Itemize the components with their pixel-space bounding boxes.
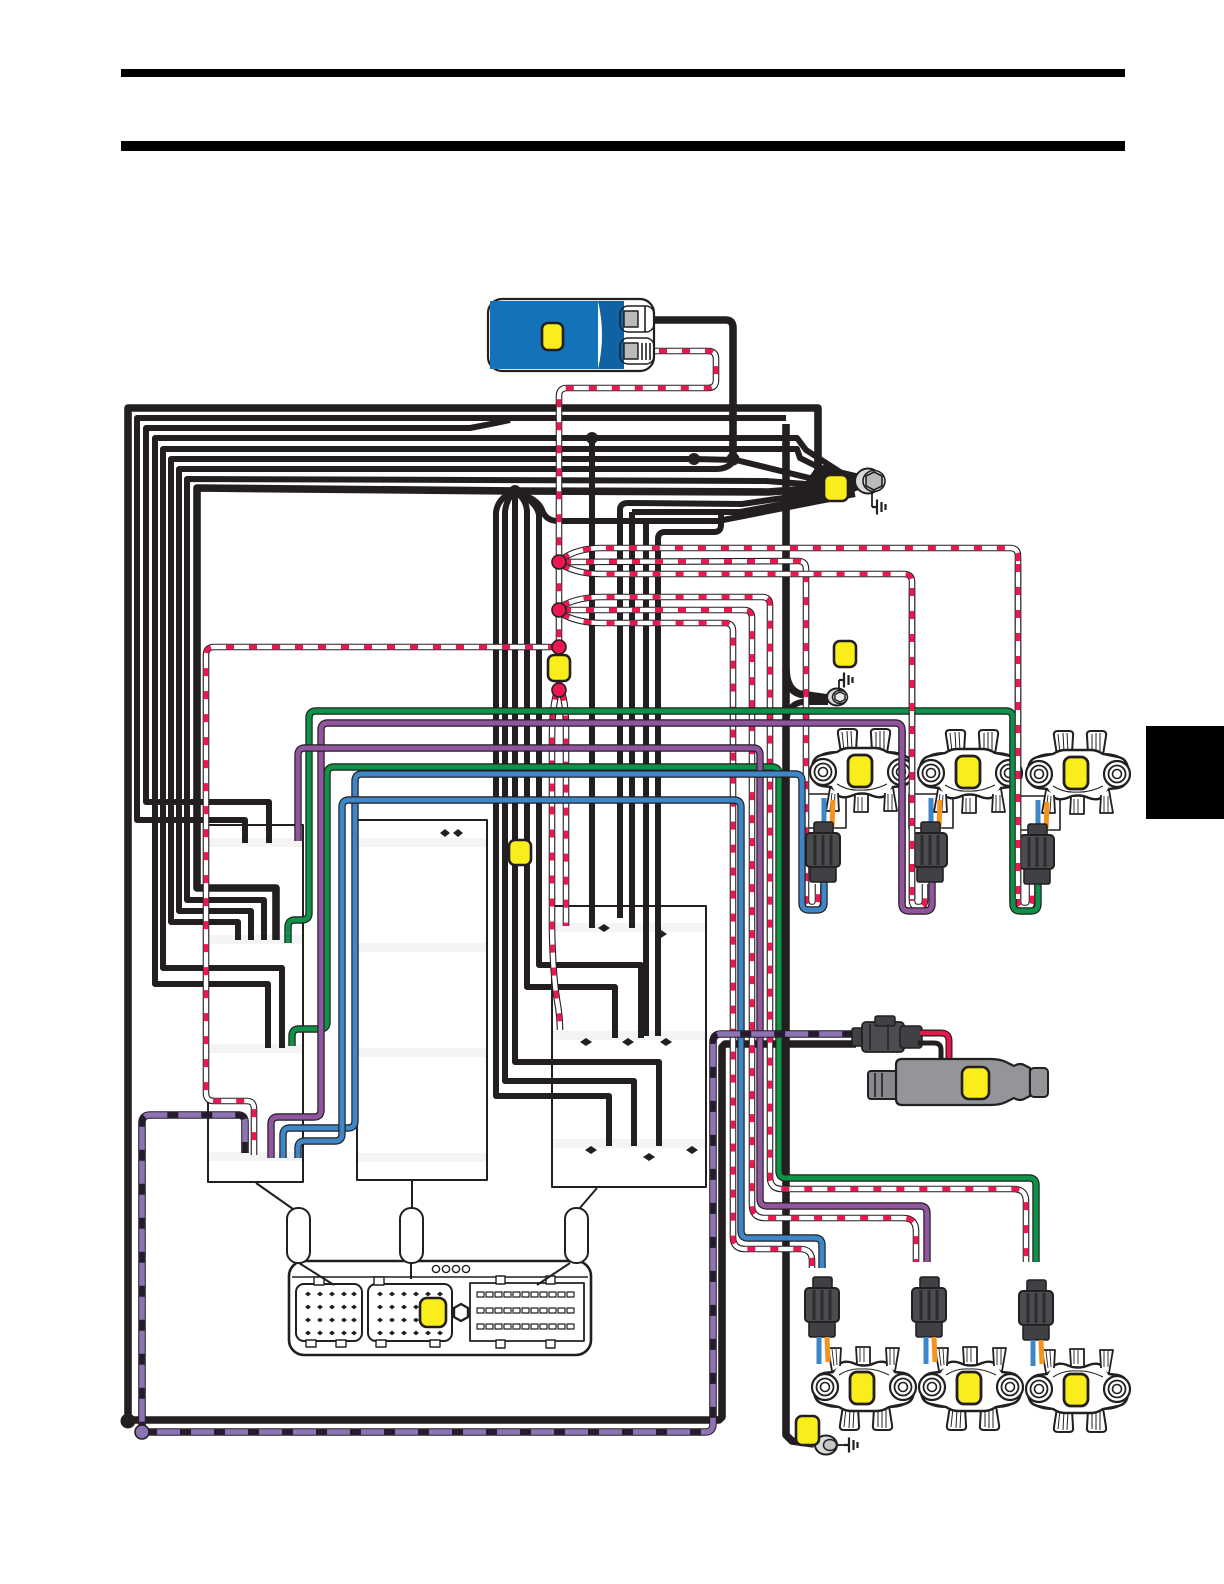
- ECU plug A (left): [296, 1277, 362, 1347]
- wire h2 upper branch to ground connector: [786, 668, 828, 698]
- ground G3 label: [796, 1416, 819, 1445]
- ground G1 symbol: [872, 500, 886, 515]
- sensor S1 (gray): [868, 1059, 1048, 1105]
- sensor harness connector: [852, 1016, 922, 1052]
- engine ground G2 connector: [827, 680, 848, 706]
- coil C6 connector: [1019, 1280, 1053, 1340]
- ECU plug C (right, pin header): [470, 1276, 584, 1348]
- leader J2 to P2: [411, 1181, 413, 1208]
- wire: purple-dashed sensor lead around page bottom: [142, 1115, 245, 1428]
- ECU hex fastener: [454, 1304, 468, 1321]
- wire: battery negative harness h1 (connector to bottom run): [128, 408, 856, 1420]
- sensor red wire: [906, 1033, 949, 1087]
- ignition coil C6: [1026, 1349, 1130, 1432]
- header rule bottom: [121, 141, 1125, 151]
- coil C3 connector: [1020, 824, 1054, 884]
- ignition module label: [542, 323, 563, 350]
- coil C6 pigtail wires: [1031, 1340, 1036, 1366]
- wire: striped strand to J3 row2: [552, 692, 560, 1030]
- coil C5 pigtail wires: [924, 1337, 929, 1364]
- coil C3 mounting bracket: [1016, 796, 1060, 830]
- junction dot B: [727, 453, 740, 466]
- wire overlay: green vertical at coil C3 edge: [1009, 720, 1016, 903]
- wire junction C drop 5: [517, 493, 641, 1038]
- connector block J3 (right white box): [552, 906, 706, 1187]
- wire: striped long left loop to J1: [206, 647, 556, 1155]
- wire h2 lower approach to ground connector: [786, 702, 828, 722]
- wire: purple to coil C5: [298, 748, 927, 1262]
- wire: green to coil C6: [292, 767, 1036, 1262]
- wire: striped to coil C4: [562, 614, 812, 1268]
- junction dot red 2: [552, 603, 566, 617]
- connector block J1 (left white box): [208, 825, 303, 1182]
- wire fork drop x646: [643, 522, 649, 1036]
- junction dot red 4: [552, 683, 566, 697]
- wire h2 trunk (to engine ground and lower ground): [786, 424, 814, 1444]
- junction dot red 1: [552, 555, 566, 569]
- pigtail pill P3: [565, 1208, 588, 1263]
- coil C1 mounting bracket: [802, 794, 846, 828]
- wire: striped to coil C3 loop: [562, 548, 1032, 908]
- wire from ignition module pin to junction B: [638, 320, 733, 456]
- wire h9: [197, 486, 848, 940]
- wire h2 horizontal run: [137, 418, 786, 843]
- coil C4 connector: [805, 1277, 839, 1337]
- wire: blue to coil C1: [283, 774, 824, 1158]
- wire: purple-dashed bottom run: [146, 1034, 856, 1432]
- wire overlay: striped at coil C3 gap: [1015, 564, 1022, 899]
- wire overlay: purple vertical at coil C1 edge: [898, 730, 905, 903]
- header rule top: [121, 69, 1125, 77]
- wire overlay: striped at coil C2 gap: [909, 588, 916, 899]
- leader J3 to P3: [579, 1188, 597, 1209]
- wire: green to coil C3: [288, 711, 1038, 943]
- wire h4 to staircase: [155, 438, 854, 1048]
- wire junction C drop 1: [496, 492, 609, 1146]
- wire drop from junction on h4: [589, 438, 595, 928]
- pigtail pill P1: [287, 1208, 310, 1263]
- coil C5 connector: [912, 1277, 946, 1337]
- wire: striped lead from ignition module: [559, 351, 716, 688]
- wire: striped strand to J3 row1: [562, 693, 566, 926]
- page edge index tab: [1146, 726, 1224, 819]
- wire fork line f3 from junction C: [518, 493, 855, 521]
- connector block J2 (middle white box): [357, 820, 487, 1180]
- ground G3 symbol: [844, 1438, 858, 1453]
- wire junction C drop 4: [516, 492, 615, 1038]
- wire: striped to coil C6: [562, 597, 1026, 1262]
- convergence label: [824, 475, 848, 501]
- wire: blue to coil C4: [298, 800, 822, 1268]
- ignition coil C3: [1026, 731, 1130, 814]
- junction dot red 3: [552, 640, 566, 654]
- junction dot bottom left: [121, 1414, 136, 1429]
- ignition coil C1: [810, 729, 914, 812]
- leader P3 to ECU: [537, 1263, 570, 1285]
- ignition coil C4: [812, 1347, 916, 1430]
- ignition module (blue box): [488, 299, 654, 371]
- wire: purple to coil C2: [271, 723, 932, 1158]
- sensor black wire: [908, 1043, 941, 1079]
- SECTION:BLACK: [121, 320, 862, 1444]
- ignition coil C2: [918, 730, 1022, 813]
- wire h6 joining junction B: [171, 459, 850, 940]
- wire h7 thick through junction C: [179, 462, 733, 940]
- wire fork line f1: [620, 488, 852, 918]
- ECU connector assembly: [289, 1261, 591, 1355]
- harness convergence connector and ground G1: [855, 469, 885, 508]
- sensor S1 label: [962, 1067, 989, 1099]
- harness convergence wedge: [798, 464, 861, 495]
- leader P1 to ECU: [299, 1263, 334, 1285]
- wire junction C drop 2: [505, 492, 634, 1146]
- ECU plug B label: [420, 1298, 446, 1327]
- mid harness label: [548, 655, 570, 681]
- wire h5 through junctions A and B: [163, 449, 852, 1048]
- leader J1 to P1: [256, 1183, 293, 1209]
- wire h8: [187, 479, 846, 940]
- pigtail pill P2: [400, 1208, 423, 1263]
- coil C3 pigtail wires: [1036, 800, 1041, 830]
- wire h3 with Y merge into h2: [146, 420, 510, 843]
- coil C2 mounting bracket: [909, 794, 953, 828]
- coil C2 pigtail wires: [929, 798, 934, 828]
- coil C1 pigtail wires: [822, 798, 827, 828]
- wire fork line f4: [658, 513, 721, 1036]
- wire fork line f2: [629, 512, 635, 928]
- junction dot A: [688, 453, 700, 465]
- junction dot C: [509, 485, 521, 497]
- junction dot purple: [135, 1425, 149, 1439]
- coil C2 connector: [913, 822, 947, 882]
- wire junction C drop 3: [515, 492, 659, 1146]
- coil C4 pigtail wires: [817, 1337, 822, 1364]
- coil C1 connector: [806, 822, 840, 882]
- wire fork line f2 right: [632, 491, 852, 512]
- left harness label: [509, 840, 531, 865]
- ECU plug B (middle): [368, 1277, 452, 1347]
- wire: striped to coil C1 loop: [563, 561, 818, 907]
- wire: striped to coil C2 loop: [562, 565, 925, 907]
- junction dot on h4: [586, 432, 598, 444]
- ground G3 connector (bottom): [815, 1436, 844, 1455]
- ignition coil C5: [919, 1347, 1023, 1430]
- ground G2 label: [834, 641, 856, 667]
- ground G2 symbol: [839, 673, 853, 688]
- leader P2 to ECU: [410, 1263, 412, 1279]
- wire: striped to coil C5: [563, 610, 916, 1262]
